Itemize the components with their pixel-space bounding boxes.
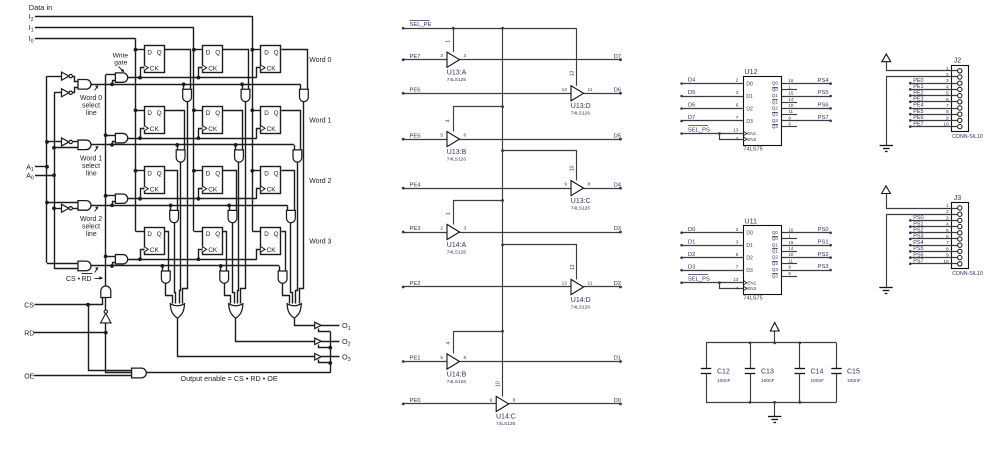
svg-text:D: D bbox=[147, 110, 152, 117]
svg-text:1: 1 bbox=[446, 40, 452, 43]
svg-text:Word 0: Word 0 bbox=[309, 57, 331, 64]
svg-text:CK: CK bbox=[150, 247, 160, 254]
svg-text:Q1: Q1 bbox=[772, 99, 779, 104]
svg-text:C12: C12 bbox=[717, 369, 730, 376]
svg-text:PS3: PS3 bbox=[913, 234, 923, 240]
svg-text:74LS126: 74LS126 bbox=[447, 379, 467, 385]
svg-text:PE2: PE2 bbox=[913, 90, 923, 96]
svg-text:PE6: PE6 bbox=[410, 88, 421, 94]
svg-text:Q: Q bbox=[157, 49, 162, 56]
svg-text:Word 0: Word 0 bbox=[80, 95, 102, 102]
svg-text:D2: D2 bbox=[688, 252, 695, 258]
svg-text:CK: CK bbox=[150, 126, 160, 133]
svg-text:3: 3 bbox=[464, 226, 467, 232]
svg-text:D: D bbox=[147, 231, 152, 238]
svg-text:6: 6 bbox=[946, 234, 949, 240]
svg-text:Q: Q bbox=[274, 231, 279, 238]
svg-text:U13:A: U13:A bbox=[447, 70, 467, 77]
svg-text:D0: D0 bbox=[614, 398, 621, 404]
svg-text:D1: D1 bbox=[746, 243, 753, 249]
svg-text:11: 11 bbox=[788, 258, 793, 263]
svg-text:10: 10 bbox=[788, 252, 794, 257]
svg-text:Q1: Q1 bbox=[772, 249, 779, 254]
svg-text:2: 2 bbox=[946, 72, 949, 78]
svg-text:10: 10 bbox=[570, 165, 576, 171]
svg-text:74LS126: 74LS126 bbox=[496, 421, 516, 427]
svg-text:15: 15 bbox=[788, 240, 794, 245]
svg-text:4: 4 bbox=[446, 119, 452, 122]
svg-text:74LS75: 74LS75 bbox=[743, 146, 762, 152]
svg-text:Q1: Q1 bbox=[772, 93, 779, 98]
svg-text:Q2: Q2 bbox=[772, 255, 779, 260]
svg-text:2: 2 bbox=[736, 227, 739, 232]
svg-text:Output enable = CS • RD • OE: Output enable = CS • RD • OE bbox=[181, 374, 278, 383]
svg-text:PE5: PE5 bbox=[410, 133, 421, 139]
svg-text:Q: Q bbox=[215, 49, 220, 56]
svg-text:9: 9 bbox=[490, 397, 493, 403]
svg-text:D0: D0 bbox=[746, 231, 753, 237]
svg-text:RD: RD bbox=[24, 330, 34, 337]
svg-text:select: select bbox=[82, 163, 100, 170]
svg-text:PS5: PS5 bbox=[818, 90, 829, 96]
svg-text:10: 10 bbox=[788, 103, 794, 108]
svg-text:16: 16 bbox=[788, 78, 794, 83]
svg-text:EN1: EN1 bbox=[747, 280, 756, 285]
svg-text:D: D bbox=[206, 231, 211, 238]
svg-text:11: 11 bbox=[788, 109, 793, 114]
svg-text:SEL_PS: SEL_PS bbox=[688, 277, 710, 283]
svg-text:CS: CS bbox=[24, 302, 34, 309]
svg-text:D3: D3 bbox=[746, 268, 753, 274]
svg-text:13: 13 bbox=[733, 277, 739, 282]
svg-text:12: 12 bbox=[562, 281, 568, 287]
svg-text:gate: gate bbox=[114, 60, 127, 67]
svg-text:PS4: PS4 bbox=[913, 240, 923, 246]
svg-text:PS4: PS4 bbox=[818, 78, 830, 84]
svg-text:line: line bbox=[86, 231, 97, 238]
svg-text:13: 13 bbox=[570, 264, 576, 270]
svg-text:J3: J3 bbox=[954, 195, 962, 202]
svg-text:13: 13 bbox=[570, 71, 576, 77]
svg-text:Q: Q bbox=[157, 170, 162, 177]
svg-text:CK: CK bbox=[267, 65, 277, 72]
svg-text:RD: RD bbox=[82, 276, 92, 283]
svg-text:CONN-SIL10: CONN-SIL10 bbox=[952, 134, 983, 140]
svg-text:Word 2: Word 2 bbox=[309, 178, 331, 185]
svg-text:Word 1: Word 1 bbox=[80, 155, 102, 162]
svg-text:D7: D7 bbox=[688, 115, 695, 121]
svg-text:EN3: EN3 bbox=[747, 137, 756, 142]
svg-text:D6: D6 bbox=[614, 88, 621, 94]
svg-text:5: 5 bbox=[440, 133, 443, 139]
svg-text:select: select bbox=[82, 223, 100, 230]
svg-text:Word 2: Word 2 bbox=[80, 216, 102, 223]
svg-text:Q: Q bbox=[215, 170, 220, 177]
svg-text:PS7: PS7 bbox=[818, 115, 829, 121]
svg-text:Q: Q bbox=[274, 110, 279, 117]
svg-text:Q: Q bbox=[215, 231, 220, 238]
svg-text:100nF: 100nF bbox=[761, 378, 775, 384]
svg-text:select: select bbox=[82, 102, 100, 109]
svg-text:D: D bbox=[206, 110, 211, 117]
svg-text:D: D bbox=[147, 170, 152, 177]
svg-text:2: 2 bbox=[440, 53, 443, 59]
svg-text:PE5: PE5 bbox=[913, 109, 923, 115]
svg-text:U11: U11 bbox=[744, 216, 757, 225]
svg-text:U14:C: U14:C bbox=[496, 414, 516, 421]
svg-text:PE4: PE4 bbox=[913, 103, 923, 109]
svg-text:PS0: PS0 bbox=[913, 215, 923, 221]
svg-text:D1: D1 bbox=[688, 239, 695, 245]
svg-text:D6: D6 bbox=[688, 103, 695, 109]
svg-text:D2: D2 bbox=[746, 106, 753, 112]
svg-text:1: 1 bbox=[446, 212, 452, 215]
svg-text:line: line bbox=[86, 110, 97, 117]
svg-text:C14: C14 bbox=[811, 369, 824, 376]
svg-text:CK: CK bbox=[208, 126, 218, 133]
svg-text:line: line bbox=[86, 170, 97, 177]
svg-text:CONN-SIL10: CONN-SIL10 bbox=[952, 271, 983, 277]
svg-text:D0: D0 bbox=[746, 81, 753, 87]
svg-text:OE: OE bbox=[24, 373, 34, 380]
svg-text:Q1: Q1 bbox=[772, 242, 779, 247]
svg-text:D4: D4 bbox=[614, 182, 622, 188]
svg-text:U13:C: U13:C bbox=[571, 198, 591, 205]
svg-text:D5: D5 bbox=[614, 133, 621, 139]
svg-text:PS2: PS2 bbox=[913, 228, 923, 234]
svg-text:CK: CK bbox=[267, 126, 277, 133]
svg-text:Q2: Q2 bbox=[772, 106, 779, 111]
svg-text:12: 12 bbox=[562, 87, 568, 93]
svg-text:D1: D1 bbox=[614, 356, 621, 362]
svg-text:PS6: PS6 bbox=[913, 252, 923, 258]
svg-text:D3: D3 bbox=[746, 119, 753, 125]
svg-text:Q: Q bbox=[157, 110, 162, 117]
svg-text:D: D bbox=[264, 49, 269, 56]
svg-text:D: D bbox=[264, 170, 269, 177]
svg-text:CK: CK bbox=[150, 186, 160, 193]
svg-text:PS1: PS1 bbox=[913, 221, 923, 227]
svg-text:CK: CK bbox=[208, 65, 218, 72]
svg-text:U12: U12 bbox=[744, 67, 757, 76]
svg-text:D3: D3 bbox=[614, 226, 621, 232]
svg-text:D4: D4 bbox=[688, 78, 696, 84]
svg-text:5: 5 bbox=[440, 355, 443, 361]
svg-text:U13:B: U13:B bbox=[447, 149, 467, 156]
svg-text:U14:B: U14:B bbox=[447, 371, 467, 378]
svg-text:U13:D: U13:D bbox=[571, 103, 591, 110]
svg-text:100nF: 100nF bbox=[847, 378, 861, 384]
svg-text:Q0: Q0 bbox=[772, 81, 779, 86]
svg-text:PE1: PE1 bbox=[410, 356, 421, 362]
svg-text:14: 14 bbox=[788, 97, 794, 102]
svg-text:CK: CK bbox=[208, 247, 218, 254]
svg-text:PS3: PS3 bbox=[818, 264, 829, 270]
svg-text:PE3: PE3 bbox=[410, 226, 421, 232]
svg-text:Q: Q bbox=[157, 231, 162, 238]
svg-text:D: D bbox=[206, 170, 211, 177]
svg-text:Q: Q bbox=[274, 170, 279, 177]
svg-text:7: 7 bbox=[736, 264, 739, 269]
svg-text:PS5: PS5 bbox=[913, 246, 923, 252]
svg-text:D7: D7 bbox=[614, 54, 621, 60]
svg-text:10: 10 bbox=[495, 381, 501, 387]
svg-text:74LS126: 74LS126 bbox=[447, 156, 467, 162]
svg-text:D0: D0 bbox=[688, 227, 695, 233]
svg-text:Q0: Q0 bbox=[772, 230, 779, 235]
svg-text:4: 4 bbox=[736, 136, 739, 141]
svg-text:EN1: EN1 bbox=[747, 131, 756, 136]
svg-text:D5: D5 bbox=[688, 90, 695, 96]
svg-text:6: 6 bbox=[464, 133, 467, 139]
svg-text:Word 3: Word 3 bbox=[309, 238, 331, 245]
svg-text:Write: Write bbox=[113, 53, 129, 60]
svg-text:15: 15 bbox=[788, 91, 794, 96]
svg-text:6: 6 bbox=[464, 355, 467, 361]
svg-text:D3: D3 bbox=[688, 264, 695, 270]
svg-text:SEL_PS: SEL_PS bbox=[688, 128, 710, 134]
svg-text:PE4: PE4 bbox=[410, 182, 422, 188]
svg-text:3: 3 bbox=[464, 53, 467, 59]
svg-text:3: 3 bbox=[736, 90, 739, 95]
svg-text:PE3: PE3 bbox=[913, 97, 923, 103]
svg-text:3: 3 bbox=[736, 239, 739, 244]
svg-text:74LS126: 74LS126 bbox=[571, 304, 591, 310]
svg-text:6: 6 bbox=[736, 252, 739, 257]
svg-text:D: D bbox=[206, 49, 211, 56]
svg-text:D2: D2 bbox=[614, 281, 621, 287]
svg-text:J2: J2 bbox=[954, 58, 962, 65]
svg-text:13: 13 bbox=[733, 128, 739, 133]
svg-text:4: 4 bbox=[446, 342, 452, 345]
svg-text:CK: CK bbox=[267, 186, 277, 193]
svg-text:D: D bbox=[264, 110, 269, 117]
svg-text:2: 2 bbox=[440, 226, 443, 232]
svg-text:SEL_PE: SEL_PE bbox=[410, 22, 432, 28]
svg-text:PE0: PE0 bbox=[410, 398, 421, 404]
svg-text:CK: CK bbox=[208, 186, 218, 193]
svg-text:2: 2 bbox=[736, 78, 739, 83]
svg-text:Data in: Data in bbox=[29, 3, 52, 12]
svg-text:CS •: CS • bbox=[66, 276, 81, 283]
svg-text:CK: CK bbox=[150, 65, 160, 72]
svg-text:C13: C13 bbox=[761, 369, 774, 376]
svg-text:Q: Q bbox=[274, 49, 279, 56]
svg-text:PS0: PS0 bbox=[818, 227, 829, 233]
svg-text:8: 8 bbox=[588, 182, 591, 188]
svg-text:16: 16 bbox=[788, 227, 794, 232]
svg-text:PS2: PS2 bbox=[818, 252, 829, 258]
svg-text:11: 11 bbox=[588, 87, 593, 93]
svg-text:7: 7 bbox=[736, 115, 739, 120]
svg-text:D1: D1 bbox=[746, 94, 753, 100]
svg-text:74LS126: 74LS126 bbox=[447, 249, 467, 255]
svg-text:D: D bbox=[147, 49, 152, 56]
svg-text:PS1: PS1 bbox=[818, 239, 829, 245]
svg-text:8: 8 bbox=[513, 397, 516, 403]
svg-text:PE7: PE7 bbox=[913, 121, 923, 127]
svg-text:74LS126: 74LS126 bbox=[571, 111, 591, 117]
svg-text:PE6: PE6 bbox=[913, 115, 923, 121]
svg-text:EN3: EN3 bbox=[747, 286, 756, 291]
svg-text:U14:A: U14:A bbox=[447, 242, 467, 249]
svg-text:6: 6 bbox=[736, 103, 739, 108]
svg-text:14: 14 bbox=[788, 246, 794, 251]
svg-text:D: D bbox=[264, 231, 269, 238]
svg-text:D2: D2 bbox=[746, 256, 753, 262]
svg-text:100nF: 100nF bbox=[811, 378, 825, 384]
svg-text:Q: Q bbox=[215, 110, 220, 117]
svg-text:74LS126: 74LS126 bbox=[447, 77, 467, 83]
svg-text:Q3: Q3 bbox=[772, 118, 779, 123]
svg-text:4: 4 bbox=[736, 285, 739, 290]
svg-text:9: 9 bbox=[564, 182, 567, 188]
svg-text:Word 1: Word 1 bbox=[309, 117, 331, 124]
svg-text:PE1: PE1 bbox=[913, 84, 923, 90]
svg-text:PE7: PE7 bbox=[410, 54, 421, 60]
svg-text:11: 11 bbox=[588, 281, 593, 287]
svg-text:PS6: PS6 bbox=[818, 103, 829, 109]
svg-text:Q3: Q3 bbox=[772, 273, 779, 278]
svg-text:CK: CK bbox=[267, 247, 277, 254]
svg-text:PE2: PE2 bbox=[410, 281, 421, 287]
svg-text:Q3: Q3 bbox=[772, 267, 779, 272]
svg-text:74LS75: 74LS75 bbox=[743, 296, 762, 302]
svg-text:PS7: PS7 bbox=[913, 259, 923, 265]
svg-text:PE0: PE0 bbox=[913, 78, 923, 84]
svg-text:C15: C15 bbox=[847, 369, 860, 376]
svg-text:100nF: 100nF bbox=[717, 378, 731, 384]
svg-text:U14:D: U14:D bbox=[571, 297, 591, 304]
svg-text:74LS126: 74LS126 bbox=[571, 205, 591, 211]
